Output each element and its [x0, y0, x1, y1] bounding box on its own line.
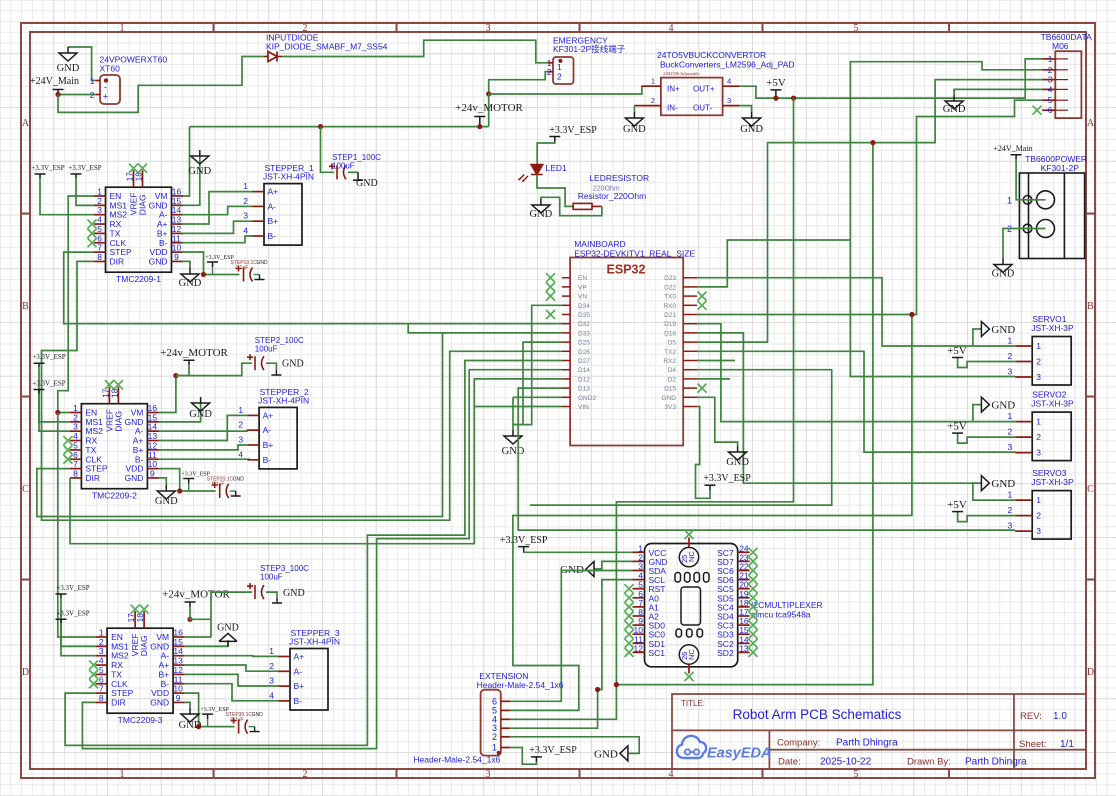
power flag +3.3V_ESP tmc2-a [34, 363, 45, 367]
svg-text:1: 1 [269, 646, 274, 656]
connector STEPPER_2 JST-XH-4PIN [238, 405, 297, 469]
wire VDD bypass tmc3 [199, 726, 235, 728]
wire RX2 stub [697, 360, 735, 362]
svg-text:2: 2 [557, 72, 562, 82]
wire flag stem tmc2 [188, 484, 190, 492]
svg-text:C: C [22, 484, 29, 495]
no-connect I2C right pin22 [749, 566, 758, 575]
svg-text:3: 3 [269, 676, 274, 686]
wire cap to gnd tmc3 [249, 726, 255, 728]
svg-text:DIR: DIR [111, 697, 126, 707]
svg-text:IN-: IN- [667, 104, 678, 113]
ground ESP32 GND2 [504, 430, 522, 444]
no-connect ESP32 VN [546, 292, 555, 301]
no-connect I2C right pin19 [749, 593, 758, 602]
no-connect I2C left pin7 [625, 602, 634, 611]
wire TB2 net [850, 62, 1042, 377]
wire TB3 net [616, 80, 1042, 685]
svg-text:TMC2209-3: TMC2209-3 [118, 715, 163, 725]
svg-text:cjmcu tca9548a: cjmcu tca9548a [751, 610, 811, 620]
no-connect I2C pin25 [685, 530, 694, 539]
svg-text:Header-Male-2.54_1x6: Header-Male-2.54_1x6 [413, 755, 500, 765]
junction ext pin3 [595, 687, 600, 692]
svg-text:NC: NC [687, 551, 696, 562]
ground buck IN- [625, 112, 643, 126]
svg-text:13: 13 [739, 643, 749, 653]
svg-text:LED1: LED1 [546, 163, 568, 173]
svg-text:1: 1 [1007, 490, 1012, 500]
no-connect TMC2209-2 CLK [63, 455, 72, 464]
svg-text:B: B [22, 301, 29, 312]
svg-text:1: 1 [557, 62, 562, 72]
EasyEDA logo [677, 736, 772, 762]
connector EXTENSION Header-Male-2.54_1x6 [481, 690, 511, 756]
ground flag extension [620, 746, 628, 761]
svg-text:JST-XH-3P: JST-XH-3P [1031, 323, 1074, 333]
svg-text:+3.3V_ESP: +3.3V_ESP [703, 473, 751, 484]
no-connect ESP32 D35 [546, 310, 555, 319]
no-connect TMC2209-1 CLK [88, 238, 97, 247]
svg-text:D19: D19 [664, 321, 676, 328]
wire A+2 [159, 415, 248, 440]
no-connect TMC2209-1 pin17 [129, 164, 138, 173]
connector P1 24VPOWERXT60 XT60 [90, 75, 120, 104]
ground bar cap2 [271, 370, 281, 375]
no-connect I2C right pin23 [749, 557, 758, 566]
wire VM1 from motor rail [182, 127, 190, 196]
wire +5V branch down to extension [616, 98, 793, 685]
power flag +3.3V_ESP tmc3-b [56, 619, 67, 623]
wire VDD bypass tmc1 [204, 274, 240, 276]
no-connect TMC2209-3 pin17 [131, 605, 140, 614]
wire GND2 stub to gnd [513, 396, 562, 398]
svg-text:VN: VN [578, 294, 587, 301]
svg-text:24TO5VBUCKCONVERTOR: 24TO5VBUCKCONVERTOR [657, 50, 766, 60]
svg-text:2: 2 [90, 90, 95, 100]
svg-text:JST-XH-4PIN: JST-XH-4PIN [258, 395, 309, 405]
ground flag servo2 [981, 397, 989, 412]
no-connect I2C left pin6 [625, 593, 634, 602]
svg-text:+3.3V_ESP: +3.3V_ESP [500, 535, 548, 546]
wire GND9 tmc1 [182, 261, 190, 268]
svg-text:+3.3V_ESP: +3.3V_ESP [549, 125, 597, 136]
wire VM3 [185, 636, 211, 638]
capacitor C_STEP10.1C 0.1uF [236, 266, 253, 282]
power flag +3.3V_ESP vdd tmc1 [207, 262, 218, 267]
wire I2C VCC [524, 551, 633, 554]
wire ESP 3V3 net [696, 407, 711, 499]
wire B+1 [182, 221, 253, 233]
svg-text:Company:: Company: [777, 738, 820, 749]
svg-text:4: 4 [238, 449, 243, 459]
svg-text:D5: D5 [668, 340, 677, 347]
svg-text:18: 18 [135, 172, 144, 181]
wire servo1 pin1 gnd [973, 329, 1015, 346]
svg-text:D4: D4 [668, 367, 677, 374]
no-connect TMC2209-3 RX [89, 661, 98, 670]
svg-text:D33: D33 [578, 330, 590, 337]
no-connect ESP32 RX0 [698, 301, 707, 310]
svg-text:1: 1 [651, 77, 655, 86]
svg-text:B-: B- [263, 455, 272, 465]
svg-text:4: 4 [269, 690, 274, 700]
svg-text:D: D [1087, 667, 1094, 678]
no-connect I2C right pin21 [749, 575, 758, 584]
IC U3 TMC2209-3 [96, 611, 185, 725]
svg-text:2: 2 [1036, 357, 1041, 367]
svg-text:0.1uF: 0.1uF [212, 482, 225, 488]
wire cap to gnd tmc2 [230, 490, 236, 492]
svg-text:+5V: +5V [947, 421, 967, 433]
svg-text:GND: GND [726, 457, 749, 468]
svg-text:GND: GND [623, 124, 646, 135]
wire B-1 [182, 236, 253, 243]
module U3 ESP32-DEVKITV1 [562, 258, 697, 446]
svg-text:2: 2 [238, 420, 243, 430]
svg-text:D35: D35 [578, 312, 590, 319]
svg-text:JST-XH-3P: JST-XH-3P [1031, 399, 1074, 409]
svg-text:D27: D27 [578, 358, 590, 365]
wire STEP3 net [65, 361, 562, 746]
wire B-3 [185, 684, 279, 701]
svg-text:1: 1 [1007, 336, 1012, 346]
svg-text:100uF: 100uF [255, 345, 278, 354]
wire D21-DIR link [510, 315, 912, 711]
svg-text:RX2: RX2 [663, 358, 676, 365]
svg-text:I2CMULTIPLEXER: I2CMULTIPLEXER [751, 600, 823, 610]
wire GND to XT60 pin1 [68, 47, 96, 81]
connector STEPPER_1 JST-XH-4PIN [243, 181, 302, 245]
wire VDD10 tmc2 [159, 469, 180, 491]
wire servo3 pin1 gnd [973, 483, 1015, 500]
no-connect TMC2209-1 pin18 [138, 164, 147, 173]
wire D19 net to servo2 gnd row [697, 324, 973, 422]
svg-text:GND: GND [189, 409, 212, 420]
svg-text:Parth Dhingra: Parth Dhingra [836, 738, 898, 749]
no-connect I2C left pin12 [625, 648, 634, 657]
svg-text:B+: B+ [294, 681, 305, 691]
wire A-3 [185, 655, 279, 658]
no-connect I2C right pin18 [749, 602, 758, 611]
wire D34 net [513, 305, 562, 424]
svg-text:SC1: SC1 [649, 648, 666, 658]
capacitor C_STEP20.1C 0.1uF [212, 482, 229, 498]
svg-text:D34: D34 [578, 303, 590, 310]
wire junction to buck IN+ [489, 86, 661, 94]
svg-text:D26: D26 [578, 349, 590, 356]
svg-text:4: 4 [669, 23, 674, 34]
IC U4 I2C multiplexer TCA9548A [633, 538, 750, 674]
svg-text:0.1uF: 0.1uF [236, 265, 249, 271]
wire TB5 net to ESP D21 [697, 100, 1042, 314]
junction motor2 [173, 373, 178, 378]
power port +5V [770, 90, 781, 98]
svg-text:DIAG: DIAG [139, 635, 149, 656]
svg-text:2: 2 [1048, 65, 1053, 75]
svg-text:D22: D22 [664, 284, 676, 291]
svg-text:+: + [103, 92, 108, 102]
svg-text:3: 3 [238, 435, 243, 445]
junction VDD tmc3 [196, 724, 201, 729]
svg-text:1: 1 [1036, 417, 1041, 427]
no-connect ESP32 VP [546, 282, 555, 291]
wire extension pin1 3v3 [510, 748, 536, 765]
ground bar bypass tmc1 [255, 275, 265, 280]
svg-text:3: 3 [486, 769, 491, 780]
wire STEP1 cap to GND [348, 171, 358, 173]
svg-text:3: 3 [243, 211, 248, 221]
svg-text:+24v_MOTOR: +24v_MOTOR [455, 102, 523, 114]
svg-text:3: 3 [1007, 442, 1012, 452]
svg-text:ESP32: ESP32 [607, 263, 646, 277]
svg-text:17: 17 [127, 613, 136, 622]
wire buck IN- to GND [633, 106, 635, 112]
svg-text:3V3: 3V3 [664, 404, 676, 411]
no-connect TMC2209-3 TX [89, 670, 98, 679]
ground tmc3 pin15 up [219, 633, 237, 646]
svg-text:2: 2 [1036, 511, 1041, 521]
wire buck OUT- to GND [740, 106, 752, 112]
svg-text:+24V_Main: +24V_Main [30, 76, 79, 87]
svg-text:18: 18 [136, 613, 145, 622]
ground TB6600POWER pin2 [994, 259, 1012, 273]
svg-text:1: 1 [238, 405, 243, 415]
svg-text:LEDRESISTOR: LEDRESISTOR [589, 173, 649, 183]
wire extension pin2 gnd [510, 737, 639, 754]
svg-text:1: 1 [243, 181, 248, 191]
svg-text:GND: GND [943, 104, 966, 115]
svg-text:GND: GND [282, 359, 304, 370]
wire B+3 [185, 674, 279, 686]
no-connect I2C right pin13 [749, 648, 758, 657]
wire 3V3 to MS1 tmc1 [76, 178, 94, 205]
wire 3V3 to MS1 tmc2 [39, 367, 70, 422]
svg-text:+3.3V_ESP: +3.3V_ESP [32, 353, 65, 361]
power flag +3.3V_ESP i2c [518, 547, 529, 552]
IC U2 TMC2209-2 [70, 387, 159, 501]
svg-text:D12: D12 [578, 376, 590, 383]
svg-text:Robot Arm PCB Schematics: Robot Arm PCB Schematics [733, 707, 902, 722]
svg-text:EasyEDA: EasyEDA [707, 746, 771, 762]
no-connect I2C pin26 [685, 672, 694, 681]
svg-text:2: 2 [651, 96, 655, 105]
wire rail to STEP1 cap [321, 127, 335, 173]
no-connect TMC2209-2 RX [63, 436, 72, 445]
wire cap2 to gnd [266, 363, 276, 370]
svg-text:GND: GND [57, 63, 80, 74]
wire 3V3 to MS2 tmc2 [39, 394, 70, 432]
wire A+1 [182, 192, 253, 224]
diode D1 INPUTDIODE [264, 52, 282, 62]
svg-text:GND: GND [150, 697, 169, 707]
power flag +3.3V_ESP vdd tmc2 [183, 479, 194, 484]
wire motor2 to cap2 [176, 363, 252, 375]
svg-text:Resistor_220Ohm: Resistor_220Ohm [578, 191, 647, 201]
svg-text:KF301-2P接线端子: KF301-2P接线端子 [553, 44, 626, 54]
svg-text:GND: GND [991, 478, 1015, 490]
power flag +5V servo1 [952, 357, 963, 359]
svg-text:OUT-: OUT- [693, 104, 712, 113]
no-connect TB6600DATA pin6 [1033, 106, 1042, 115]
svg-text:2: 2 [1007, 505, 1012, 515]
svg-text:IN+: IN+ [667, 85, 680, 94]
wire DIR2 long [70, 379, 562, 544]
svg-text:JST-XH-4PIN: JST-XH-4PIN [263, 172, 314, 182]
svg-text:JST-XH-3P: JST-XH-3P [1031, 477, 1074, 487]
ground tmc1 pin15 [191, 150, 209, 164]
no-connect TMC2209-2 pin18 [114, 380, 123, 389]
power flag +3.3V_ESP tmc1-b [71, 174, 82, 178]
svg-text:0.1uF: 0.1uF [231, 717, 244, 723]
svg-text:D25: D25 [578, 340, 590, 347]
ground ESP32 GND [729, 446, 747, 460]
junction +5V branch [791, 96, 796, 101]
svg-text:Drawn By:: Drawn By: [907, 757, 951, 768]
svg-text:GND2: GND2 [578, 395, 596, 402]
svg-text:17: 17 [126, 172, 135, 181]
wire TX2 net to servo2 [697, 351, 1015, 452]
no-connect TMC2209-3 pin18 [140, 605, 149, 614]
no-connect TMC2209-3 CLK [89, 679, 98, 688]
power port +24v_MOTOR mid [184, 360, 195, 365]
no-connect I2C left pin9 [625, 621, 634, 630]
no-connect I2C right pin17 [749, 612, 758, 621]
power port +24v_MOTOR top [474, 117, 485, 127]
svg-text:KIP_DIODE_SMABF_M7_SS54: KIP_DIODE_SMABF_M7_SS54 [266, 42, 388, 52]
svg-text:-: - [104, 82, 107, 92]
wire DIR2 net [69, 477, 71, 479]
svg-text:4: 4 [727, 77, 731, 86]
svg-text:D15: D15 [664, 386, 676, 393]
svg-text:1/1: 1/1 [1060, 739, 1074, 750]
wire led cathode to resistor [537, 175, 573, 207]
svg-text:5: 5 [854, 769, 859, 780]
svg-text:+3.3V_ESP: +3.3V_ESP [56, 609, 89, 617]
no-connect I2C left pin8 [625, 612, 634, 621]
wire +24V_Main rail to diode [58, 57, 264, 113]
svg-text:TMC2209-2: TMC2209-2 [92, 491, 137, 501]
svg-text:+5V: +5V [766, 77, 786, 89]
wire 3V3 to MS1 tmc3 [61, 598, 96, 646]
svg-text:A: A [1087, 118, 1095, 129]
no-connect ESP32 EN [546, 273, 555, 282]
svg-text:OUT+: OUT+ [693, 85, 715, 94]
ground flag servo3 [981, 476, 989, 491]
junction ext pin4 [614, 682, 619, 687]
junction D5-TB3 [870, 140, 875, 145]
wire D5 net up [697, 143, 873, 343]
wire TB4 to GND [954, 89, 1042, 95]
wire STEP1 to ESP D32 [64, 252, 562, 324]
svg-text:3: 3 [727, 96, 731, 105]
wire D32-D33 step link [408, 324, 442, 333]
wire B-2 [159, 458, 249, 461]
svg-text:2: 2 [1036, 432, 1041, 442]
no-connect I2C right pin14 [749, 639, 758, 648]
svg-text:GND: GND [233, 477, 245, 483]
svg-text:+24v_MOTOR: +24v_MOTOR [162, 589, 230, 601]
svg-text:17: 17 [101, 388, 110, 397]
svg-text:3: 3 [1036, 448, 1041, 458]
svg-text:REV:: REV: [1020, 711, 1042, 722]
svg-text:1: 1 [120, 23, 125, 34]
svg-text:3: 3 [1007, 521, 1012, 531]
svg-text:D32: D32 [578, 321, 590, 328]
capacitor C_STEP1 100uF [329, 163, 346, 179]
svg-text:18: 18 [110, 388, 119, 397]
svg-text:9: 9 [174, 252, 179, 262]
svg-text:A-: A- [268, 201, 277, 211]
wire TB6600POWER pin2 to GND [1003, 229, 1046, 259]
junction VDD tmc2 [177, 488, 182, 493]
wire servo1 pin2 5v [958, 358, 1016, 368]
svg-text:GND: GND [217, 622, 239, 633]
wire resistor return to gnd [541, 197, 602, 215]
svg-text:6: 6 [1048, 105, 1053, 115]
svg-text:8: 8 [97, 252, 102, 262]
IC U1 TMC2209-1 [94, 170, 183, 284]
svg-text:+3.3V_ESP: +3.3V_ESP [56, 584, 89, 592]
no-connect I2C left pin10 [625, 630, 634, 639]
svg-text:+3.3V_ESP: +3.3V_ESP [68, 164, 101, 172]
resistor R1 220Ohm [573, 203, 592, 209]
module U2 buck converter LM2596 [634, 71, 739, 115]
power port +24V_Main TB6600 [1011, 155, 1022, 160]
svg-text:Sheet:: Sheet: [1019, 739, 1046, 750]
wire GND2 down [512, 397, 514, 430]
svg-text:B-: B- [268, 231, 277, 241]
power flag +3.3V_ESP vdd tmc3 [202, 714, 213, 719]
wire D13 net to servo3 [518, 388, 1015, 530]
wire EMERGENCY pin2 to junction [489, 72, 548, 94]
svg-text:1: 1 [1007, 411, 1012, 421]
ground bar cap3 [272, 598, 282, 603]
svg-text:1: 1 [1036, 495, 1041, 505]
no-connect ESP32 TX0 [698, 292, 707, 301]
svg-text:100uF: 100uF [332, 162, 355, 171]
junction EN chain [55, 410, 60, 415]
svg-text:D2: D2 [668, 376, 677, 383]
ground flag servo1 [981, 322, 989, 337]
svg-text:Date:: Date: [778, 757, 801, 768]
svg-text:D14: D14 [578, 367, 590, 374]
wire +24V_Main to XT60 pin2 [58, 94, 96, 96]
wire cap to gnd tmc1 [254, 274, 260, 276]
svg-text:+24V_Main: +24V_Main [993, 144, 1032, 153]
power flag +3.3V_ESP extension [531, 757, 542, 762]
junction motor rail at stem [477, 124, 482, 129]
svg-text:GND: GND [125, 473, 144, 483]
svg-text:EN: EN [578, 275, 587, 282]
svg-text:100uF: 100uF [260, 573, 283, 582]
svg-text:DIAG: DIAG [138, 194, 148, 215]
junction D21 [909, 312, 914, 317]
svg-text:2: 2 [269, 661, 274, 671]
svg-text:A+: A+ [268, 187, 279, 197]
wire +24V_Main to TB6600POWER pin1 [1016, 160, 1045, 200]
svg-text:1: 1 [1036, 341, 1041, 351]
capacitor C_STEP3 100uF [247, 583, 264, 599]
svg-text:2: 2 [1007, 351, 1012, 361]
wire 3V3 to MS2 tmc3 [61, 623, 96, 655]
no-connect ESP32 D15 [698, 384, 707, 393]
svg-text:DIAG: DIAG [113, 411, 123, 432]
svg-text:9: 9 [176, 693, 181, 703]
svg-text:GND: GND [188, 166, 211, 177]
svg-text:D18: D18 [664, 330, 676, 337]
svg-text:GND: GND [991, 400, 1015, 412]
svg-text:D13: D13 [578, 386, 590, 393]
